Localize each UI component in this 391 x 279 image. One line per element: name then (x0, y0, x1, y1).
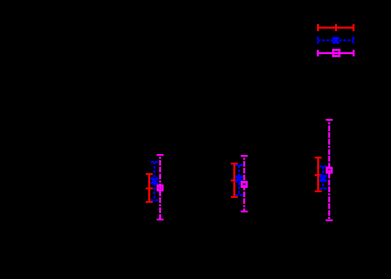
cluster 1 magenta errorbar (157, 155, 164, 220)
legend blue series sample (318, 37, 354, 44)
cluster 3 blue errorbar (320, 166, 327, 188)
legend red series sample (318, 24, 354, 31)
cluster 2 red errorbar (231, 164, 238, 197)
cluster 3 magenta errorbar (326, 120, 333, 221)
cluster 3 red errorbar (315, 158, 322, 192)
legend magenta series sample (318, 50, 354, 57)
cluster 2 magenta errorbar (241, 156, 248, 212)
cluster 1 blue errorbar (151, 162, 158, 201)
cluster 1 red errorbar (146, 174, 153, 202)
cluster 2 blue errorbar (236, 165, 243, 195)
